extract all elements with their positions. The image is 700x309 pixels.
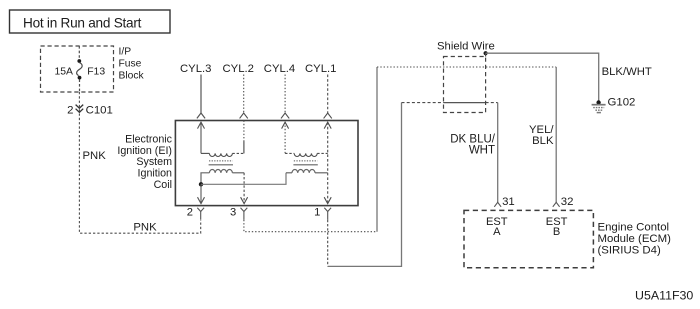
pin arrow into box from CYL.4	[282, 122, 289, 153]
transformer T1 secondary winding	[201, 153, 244, 156]
svg-text:WHT: WHT	[469, 145, 495, 157]
wire CYL.2 inside box	[243, 121, 245, 142]
label YEL/BLK	[529, 124, 554, 147]
node shield to ground	[484, 51, 488, 55]
label DK BLU/WHT	[450, 134, 496, 157]
label EST A	[486, 216, 508, 238]
I/P fuse block dashed box	[41, 46, 114, 92]
svg-text:2: 2	[67, 105, 73, 117]
svg-text:G102: G102	[608, 97, 636, 109]
svg-text:1: 1	[314, 206, 320, 218]
fuse F13 15A	[55, 46, 106, 92]
svg-text:Ignition: Ignition	[138, 168, 173, 180]
svg-text:32: 32	[561, 196, 574, 208]
connector C101	[67, 104, 113, 116]
wire PNK fuse to coil terminal 2	[79, 92, 200, 233]
terminal 2 connector Y	[197, 208, 204, 220]
svg-text:Electronic: Electronic	[125, 134, 173, 146]
svg-text:B: B	[553, 226, 560, 238]
wire CYL.2 to coil	[240, 75, 248, 119]
pin 31 connector	[494, 202, 501, 207]
wire T1 primary right to terminal 3	[243, 173, 245, 204]
ground G102	[592, 100, 606, 112]
wire terminal 1 to EST A	[328, 103, 498, 267]
label Engine Contol Module (ECM) (SIRIUS D4)	[598, 222, 672, 257]
wire terminal 3 to EST B	[244, 67, 556, 232]
svg-text:CYL.3: CYL.3	[180, 63, 211, 75]
label EST B	[546, 216, 568, 238]
svg-text:Hot in Run and Start: Hot in Run and Start	[23, 16, 142, 31]
svg-text:A: A	[493, 226, 501, 238]
svg-text:PNK: PNK	[133, 222, 157, 234]
EI coil module box	[175, 121, 358, 206]
svg-text:Ignition (EI): Ignition (EI)	[117, 145, 172, 157]
svg-text:2: 2	[187, 206, 193, 218]
title box Hot in Run and Start	[10, 10, 171, 33]
svg-text:System: System	[136, 156, 172, 168]
transformer T2 core	[293, 161, 317, 165]
svg-text:I/P: I/P	[119, 47, 132, 58]
transformer T2 secondary winding	[285, 153, 328, 156]
pin arrow into box from CYL.3	[198, 122, 205, 153]
svg-text:U5A11F30: U5A11F30	[635, 288, 693, 302]
terminal 1 connector Y	[324, 208, 331, 220]
svg-text:15A: 15A	[55, 67, 74, 78]
wire feed from node to T2 primary	[201, 173, 286, 185]
transformer T2 primary winding	[286, 170, 328, 173]
svg-text:CYL.4: CYL.4	[264, 63, 295, 75]
label Electronic Ignition (EI) System Ignition Coil	[117, 134, 172, 191]
svg-text:Module (ECM): Module (ECM)	[598, 233, 672, 245]
pin 32 connector	[553, 202, 560, 207]
svg-text:3: 3	[230, 206, 236, 218]
svg-text:(SIRIUS D4): (SIRIUS D4)	[598, 244, 661, 256]
transformer T1 primary winding	[201, 170, 244, 185]
arrow out of box terminal 3	[241, 197, 248, 203]
pin arrow into box from CYL.1 + right transformer right leg	[324, 122, 331, 203]
wire node to terminal 2 + arrow out of box	[198, 184, 205, 203]
svg-text:CYL.2: CYL.2	[223, 63, 254, 75]
svg-text:BLK: BLK	[532, 135, 554, 147]
svg-text:BLK/WHT: BLK/WHT	[602, 66, 652, 78]
svg-text:Fuse: Fuse	[119, 59, 142, 70]
shield wire dashed box	[444, 57, 486, 113]
svg-text:C101: C101	[86, 104, 113, 116]
svg-text:PNK: PNK	[83, 150, 107, 162]
svg-text:Shield Wire: Shield Wire	[437, 41, 495, 53]
I/P Fuse Block label	[119, 47, 145, 82]
wire CYL.1 to coil	[324, 75, 332, 119]
svg-text:Engine Contol: Engine Contol	[598, 222, 670, 234]
svg-text:31: 31	[502, 196, 515, 208]
svg-text:CYL.1: CYL.1	[305, 63, 336, 75]
transformer T1 core	[209, 161, 233, 165]
svg-text:Block: Block	[119, 71, 145, 82]
wire CYL.3 to coil	[197, 75, 205, 119]
ECM dashed box	[464, 210, 593, 267]
wire BLK/WHT shield to G102	[486, 53, 599, 101]
terminal 3 connector Y	[241, 208, 248, 220]
junction node dot	[199, 182, 203, 186]
wire CYL.4 to coil	[281, 75, 289, 119]
svg-text:Coil: Coil	[154, 179, 172, 191]
svg-text:F13: F13	[87, 67, 105, 78]
